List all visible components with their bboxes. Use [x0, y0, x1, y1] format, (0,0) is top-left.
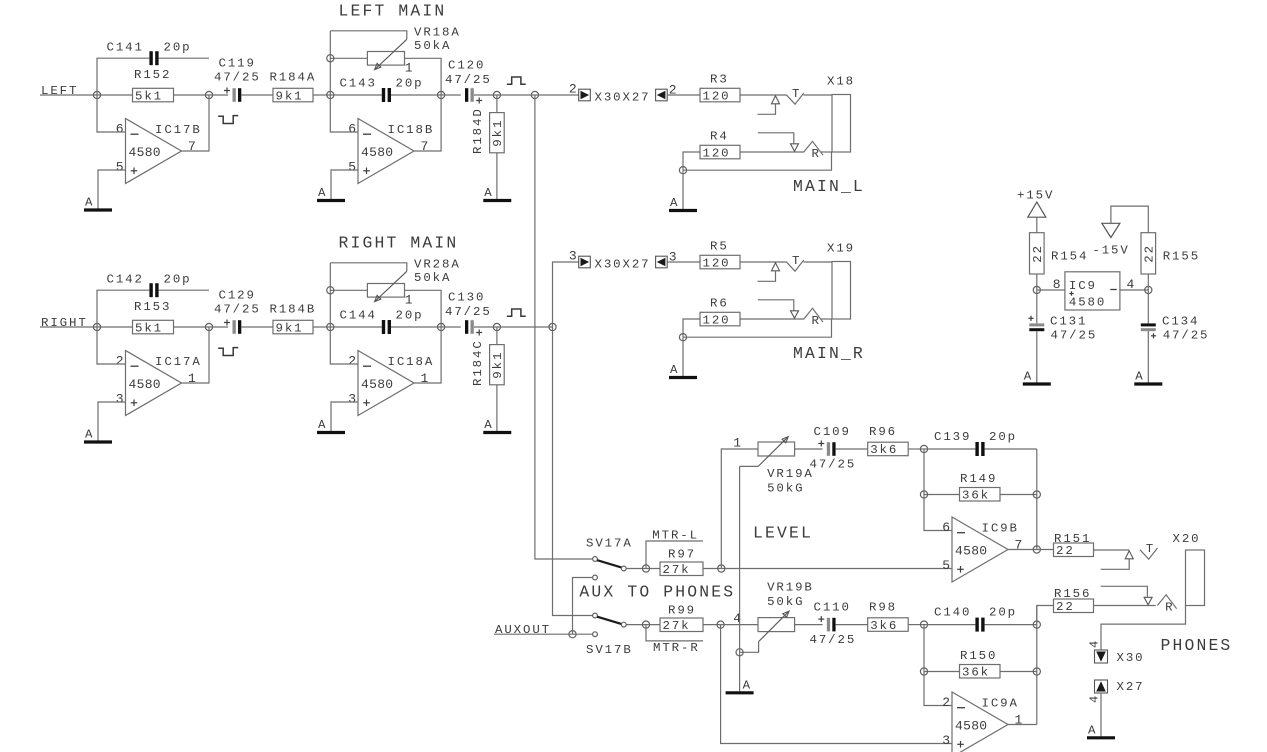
svg-text:R5: R5 [710, 240, 729, 254]
svg-text:VR28A: VR28A [414, 258, 461, 272]
svg-text:R6: R6 [710, 297, 729, 311]
svg-text:A: A [1135, 370, 1144, 384]
node feedback junction [205, 323, 212, 330]
op-amp IC9A [942, 692, 1022, 752]
capacitor C131 [1028, 290, 1097, 343]
ground at X19 [669, 337, 697, 377]
wire node A to IC18B inverting input [330, 95, 358, 132]
node C139 left junction [920, 445, 927, 452]
wire R6 to jack R [740, 318, 804, 320]
svg-text:3: 3 [348, 392, 356, 407]
svg-text:A: A [85, 428, 94, 442]
node IC9B output junction [1033, 546, 1040, 553]
jack X18 tip contact [758, 87, 804, 114]
jack X20 ring contact [1101, 586, 1177, 614]
capacitor C110 [810, 601, 857, 648]
wire VR18A right terminal [405, 58, 442, 95]
svg-text:C119: C119 [219, 57, 256, 71]
svg-text:AUX TO PHONES: AUX TO PHONES [579, 582, 735, 601]
wiper VR19A [740, 437, 789, 467]
svg-text:R184D: R184D [471, 107, 485, 154]
potentiometer VR18A body [367, 52, 404, 66]
resistor R6 [700, 297, 740, 328]
wire C129 to R184B [241, 326, 273, 328]
svg-text:VR19B: VR19B [767, 581, 814, 595]
wire node to C140 [924, 624, 975, 626]
svg-text:IC17A: IC17A [155, 355, 202, 369]
wire input to R153 [97, 326, 133, 328]
capacitor C142 plates [149, 283, 158, 297]
svg-text:R151: R151 [1054, 532, 1091, 546]
svg-text:47/25: 47/25 [1163, 329, 1210, 343]
resistor R156 [1037, 587, 1094, 625]
svg-text:1: 1 [733, 436, 741, 451]
net stub MTR-R [646, 625, 703, 655]
svg-text:SV17B: SV17B [586, 643, 633, 657]
svg-text:8: 8 [1053, 277, 1061, 292]
svg-text:50kA: 50kA [414, 271, 451, 285]
svg-text:R99: R99 [668, 604, 696, 618]
wire node to C139 [924, 448, 975, 450]
capacitor C140 plates [975, 618, 984, 632]
svg-text:4580: 4580 [361, 145, 393, 160]
svg-text:C140: C140 [934, 606, 971, 620]
potentiometer VR28A wiper [375, 271, 407, 301]
node input junction [93, 323, 100, 330]
wire sleeve return X18 [683, 152, 832, 170]
svg-text:R184B: R184B [270, 303, 317, 317]
svg-text:47/25: 47/25 [810, 458, 857, 472]
wire C109 to R96 [836, 448, 868, 450]
svg-text:X20: X20 [1173, 532, 1201, 546]
resistor R184D [471, 95, 505, 154]
resistor R154 [1030, 233, 1089, 274]
ground at IC17A [84, 428, 112, 443]
svg-text:C130: C130 [448, 291, 485, 305]
feedback column wire IC9B [1036, 449, 1038, 550]
net label RIGHT [40, 316, 97, 330]
svg-text:3: 3 [569, 249, 577, 264]
wire C110 to R98 [836, 624, 868, 626]
svg-text:X18: X18 [827, 75, 855, 89]
wire node A to C144 [330, 326, 382, 328]
svg-text:1: 1 [421, 371, 429, 386]
svg-text:47/25: 47/25 [214, 71, 261, 85]
svg-text:C134: C134 [1162, 315, 1199, 329]
wire C134 to ground [1147, 331, 1149, 382]
node C junction [493, 91, 500, 98]
svg-text:22: 22 [1056, 600, 1075, 614]
ground at wiper bus [726, 678, 754, 693]
svg-text:5: 5 [116, 160, 124, 175]
svg-text:A: A [484, 186, 493, 200]
capacitor C144 label [340, 309, 424, 323]
pulse waveform symbol 2 [507, 309, 526, 316]
svg-text:3k6: 3k6 [870, 619, 898, 633]
wire R150 right [1000, 671, 1037, 673]
svg-text:5: 5 [942, 558, 950, 573]
ground at X18 [669, 170, 697, 210]
title LEFT MAIN [339, 2, 447, 21]
wire X20 sleeve return [1101, 606, 1186, 651]
wire VR18A left terminal [330, 57, 367, 59]
wire right-out up to connector [553, 262, 579, 327]
wire C131 to ground [1036, 331, 1038, 382]
svg-text:22: 22 [1143, 244, 1157, 263]
svg-text:IC18B: IC18B [388, 123, 435, 137]
connector arrow in pin 3 [656, 250, 677, 268]
node R150 right junction [1033, 668, 1040, 675]
svg-text:IC9: IC9 [1069, 279, 1097, 293]
svg-text:9k1: 9k1 [491, 119, 505, 147]
capacitor C143 plates [382, 88, 391, 102]
wire node to IC17A inverting input [97, 327, 126, 364]
svg-text:T: T [792, 87, 801, 101]
svg-text:PHONES: PHONES [1161, 636, 1233, 655]
ground at C131 [1023, 370, 1051, 385]
svg-text:R153: R153 [134, 300, 171, 314]
svg-text:-15V: -15V [1092, 244, 1129, 258]
svg-text:C120: C120 [448, 59, 485, 73]
svg-text:LEVEL: LEVEL [753, 524, 813, 543]
wire input column to IC9B inverting input [924, 449, 952, 531]
node VR19B wiper junction [736, 649, 743, 656]
svg-text:X27: X27 [1117, 680, 1145, 694]
wire R184D to ground [496, 153, 498, 199]
svg-text:A: A [670, 363, 679, 377]
resistor R184B [270, 303, 317, 336]
svg-text:2: 2 [569, 82, 577, 97]
svg-text:20p: 20p [164, 273, 192, 287]
title LEVEL [753, 524, 813, 543]
svg-text:36k: 36k [962, 666, 990, 680]
wire R99 to node [703, 624, 721, 626]
capacitor C144 plates [382, 320, 391, 334]
wire node A to C143 [330, 94, 382, 96]
svg-text:4: 4 [1127, 277, 1135, 292]
svg-text:R4: R4 [710, 130, 729, 144]
svg-text:1: 1 [405, 61, 413, 76]
wire node to IC17B inverting input [97, 95, 126, 132]
wire node to C119 [209, 94, 228, 96]
resistor R153 [133, 300, 174, 335]
svg-text:IC9B: IC9B [982, 522, 1019, 536]
wire R154 to node [1036, 274, 1038, 290]
wire node A to IC18A inverting input [330, 327, 358, 364]
node A junction [327, 91, 334, 98]
wire R5 to jack T [740, 261, 786, 263]
wire C130 to node C [474, 326, 497, 328]
wire node B to C120 [441, 94, 461, 96]
svg-text:7: 7 [1015, 538, 1023, 553]
capacitor C140 label [934, 606, 1017, 620]
svg-text:R154: R154 [1051, 250, 1088, 264]
op-amp IC9B [942, 517, 1022, 582]
node C140 right junction [1033, 621, 1040, 628]
wire jack R to X18 [821, 151, 832, 153]
jack X18 ring contact [758, 133, 823, 161]
wire R184A to node A [313, 94, 330, 96]
wire R156 to jack R [1094, 605, 1156, 607]
wire connector to R5 [667, 261, 700, 263]
svg-text:47/25: 47/25 [445, 305, 492, 319]
wire IC18A non-inverting input to ground [331, 402, 358, 431]
svg-text:3: 3 [942, 733, 950, 748]
ground at IC18B [317, 186, 345, 201]
feedback column wire IC9A [1036, 606, 1038, 725]
wire R6 to ground node [683, 319, 700, 337]
node MTR-L junction [642, 565, 649, 572]
node R149 right junction [1033, 491, 1040, 498]
node MTR-R junction [642, 621, 649, 628]
svg-text:4580: 4580 [955, 544, 987, 559]
net stub MTR-L [646, 529, 703, 569]
wire junction to IC9B non-inverting input [721, 568, 952, 570]
jack X20 tip contact [1101, 542, 1158, 569]
wire R153 to node [174, 326, 210, 328]
resistor R3 [700, 73, 740, 104]
svg-text:47/25: 47/25 [445, 73, 492, 87]
op-amp IC18B [348, 119, 434, 184]
svg-text:A: A [318, 418, 327, 432]
svg-text:LEFT: LEFT [41, 84, 78, 98]
svg-text:22: 22 [1031, 244, 1045, 263]
net name MAIN_L [793, 177, 865, 196]
svg-text:20p: 20p [396, 77, 424, 91]
svg-text:2: 2 [348, 354, 356, 369]
wire IC17A output to node [182, 327, 210, 383]
node feedback junction [205, 91, 212, 98]
svg-text:120: 120 [703, 146, 731, 160]
connector X20 body [1173, 532, 1205, 606]
svg-text:2: 2 [116, 354, 124, 369]
resistor R99 [660, 604, 703, 634]
capacitor C143 label [340, 77, 424, 91]
wire IC18B output to node B [414, 95, 441, 151]
svg-text:X30X27: X30X27 [595, 91, 651, 105]
svg-text:X30X27: X30X27 [595, 258, 651, 272]
svg-text:120: 120 [703, 313, 731, 327]
switch SV17A common contact [621, 566, 626, 571]
wire R150 left [924, 671, 960, 673]
capacitor C134 [1141, 290, 1210, 343]
svg-text:20p: 20p [989, 606, 1017, 620]
potentiometer VR19B body [758, 618, 795, 632]
svg-text:MTR-R: MTR-R [653, 641, 700, 655]
node C140 left junction [920, 621, 927, 628]
connector X18 body [827, 75, 855, 153]
svg-text:C143: C143 [340, 77, 377, 91]
svg-text:A: A [484, 418, 493, 432]
svg-text:50kG: 50kG [767, 482, 804, 496]
wire R4 to ground node [683, 152, 700, 170]
wire node A to VR28A vertical [329, 263, 331, 327]
svg-text:20p: 20p [164, 41, 192, 55]
wire C144 to node B [391, 326, 441, 328]
wire IC9B output [1008, 549, 1037, 551]
wire IC17B output to node [182, 95, 210, 151]
capacitor C141 label [107, 41, 192, 55]
net name MAIN_R [793, 344, 865, 363]
svg-text:LEFT MAIN: LEFT MAIN [339, 2, 447, 21]
svg-text:4580: 4580 [361, 377, 393, 392]
wire R151 to jack T [1094, 549, 1130, 551]
svg-text:X30: X30 [1117, 651, 1145, 665]
connector X30 arrow [1088, 641, 1145, 665]
connector arrow out pin 3 [569, 249, 590, 268]
wiper VR19B [740, 611, 790, 652]
svg-text:4580: 4580 [129, 377, 161, 392]
svg-text:120: 120 [703, 256, 731, 270]
wire VR28A right terminal [405, 290, 442, 327]
wire node B to C130 [441, 326, 461, 328]
op-amp IC17B [116, 119, 202, 184]
wire VR19B to C110 [795, 624, 823, 626]
connector X19 body [827, 242, 855, 320]
pulse waveform symbol [218, 348, 238, 356]
resistor R96 [868, 425, 909, 457]
svg-text:A: A [670, 196, 679, 210]
capacitor C142 feedback loop wire [97, 290, 209, 327]
ground at C134 [1134, 370, 1162, 385]
svg-text:IC17B: IC17B [155, 123, 202, 137]
wire IC17B non-inverting input to ground [98, 170, 126, 209]
svg-text:A: A [1024, 370, 1033, 384]
op-amp IC18A [348, 351, 434, 416]
wire node to IC9 pin 8 [1037, 277, 1065, 292]
net label X30X27 [595, 258, 651, 272]
wire IC9A output [1008, 724, 1037, 726]
wire IC18A output to node B [414, 327, 441, 383]
svg-text:2: 2 [942, 695, 950, 710]
svg-text:SV17A: SV17A [586, 537, 633, 551]
potentiometer VR28A body [367, 284, 404, 298]
svg-text:20p: 20p [396, 309, 424, 323]
wire node A to VR18A vertical [329, 31, 331, 95]
pulse waveform symbol [218, 116, 238, 124]
wire jack R to X19 [821, 318, 832, 320]
pulse waveform symbol 2 [507, 77, 526, 84]
potentiometer VR18A wiper [375, 39, 407, 69]
svg-text:R98: R98 [869, 601, 897, 615]
svg-text:47/25: 47/25 [810, 633, 857, 647]
svg-text:R184C: R184C [471, 339, 485, 386]
svg-text:6: 6 [116, 122, 124, 137]
wire C143 to node B [391, 94, 441, 96]
node R150 left junction [920, 668, 927, 675]
op-amp power IC9 [1065, 272, 1120, 310]
capacitor C119 [214, 57, 261, 102]
potentiometer VR18A labels [405, 26, 461, 76]
ground at R184C [483, 418, 511, 433]
svg-text:50kA: 50kA [414, 39, 451, 53]
svg-text:1: 1 [188, 371, 196, 386]
svg-text:3: 3 [116, 392, 124, 407]
wire input to R152 [97, 94, 133, 96]
node V+ junction [1033, 286, 1040, 293]
wire wiper bus [739, 466, 741, 652]
switch SV17B label [586, 643, 633, 657]
wire R97 to node [703, 568, 721, 570]
svg-text:9k1: 9k1 [276, 89, 304, 103]
svg-text:T: T [1146, 542, 1155, 556]
svg-text:4580: 4580 [1069, 296, 1106, 310]
node VR19A input junction [718, 565, 725, 572]
svg-text:C139: C139 [934, 430, 971, 444]
connector arrow in pin 2 [656, 83, 677, 101]
switch SV17A throw contacts [593, 557, 598, 580]
wire R184C to ground [496, 385, 498, 431]
svg-text:T: T [792, 254, 801, 268]
node VR19B input junction [717, 621, 724, 628]
svg-text:R156: R156 [1054, 587, 1091, 601]
svg-text:R96: R96 [869, 425, 897, 439]
node left-out junction [531, 91, 538, 98]
title PHONES [1161, 636, 1233, 655]
jack X19 tip contact [758, 254, 804, 281]
wire R149 left [924, 494, 960, 496]
resistor R155 [1141, 233, 1200, 274]
ground at IC18A [317, 418, 345, 433]
capacitor C129 [214, 289, 261, 334]
wire AUXOUT to SV17B lower throw [573, 633, 593, 635]
switch SV17A lever [597, 560, 621, 567]
node VR left junction [327, 55, 334, 62]
switch SV17A label [586, 537, 633, 551]
wire R149 right [1000, 494, 1037, 496]
svg-text:4580: 4580 [129, 145, 161, 160]
wire IC18B non-inverting input to ground [331, 170, 358, 199]
node A junction [327, 323, 334, 330]
potentiometer VR19A labels [733, 436, 814, 496]
connector arrow out pin 2 [569, 82, 590, 101]
capacitor C120 [445, 59, 492, 104]
wire R155 to node [1147, 274, 1149, 290]
wire IC17A non-inverting input to ground [98, 402, 126, 441]
node C junction [493, 323, 500, 330]
net label X30X27 [595, 91, 651, 105]
svg-text:R: R [1165, 601, 1174, 615]
wire junction to VR19B [721, 624, 758, 626]
svg-text:22: 22 [1056, 544, 1075, 558]
capacitor C130 [445, 291, 492, 336]
wire right-out horizontal [497, 326, 553, 328]
wire jack T to X19 [804, 261, 833, 263]
switch SV17B throw contacts [593, 613, 598, 637]
wire VR28A left terminal [330, 289, 367, 291]
resistor R151 [1054, 532, 1094, 558]
capacitor C139 label [934, 430, 1017, 444]
svg-text:R150: R150 [960, 649, 997, 663]
svg-text:4580: 4580 [955, 719, 987, 734]
wire SV17B to R99 [626, 624, 660, 626]
svg-text:MTR-L: MTR-L [652, 529, 699, 543]
svg-text:MAIN_L: MAIN_L [793, 177, 865, 196]
wire junction down to IC9A non-inverting input [721, 625, 952, 744]
svg-text:X19: X19 [827, 242, 855, 256]
svg-text:9k1: 9k1 [491, 351, 505, 379]
svg-text:4: 4 [1088, 641, 1102, 648]
svg-text:IC9A: IC9A [982, 697, 1019, 711]
wire wiper bus to ground [739, 652, 741, 691]
svg-text:C142: C142 [107, 273, 144, 287]
svg-text:R: R [812, 147, 821, 161]
wire right-out vertical to SV17B [553, 327, 593, 616]
wire IC9B output to R151 [1037, 549, 1054, 551]
switch SV17B common contact [621, 622, 626, 627]
wire R3 to jack T [740, 94, 786, 96]
capacitor C142 label [107, 273, 192, 287]
